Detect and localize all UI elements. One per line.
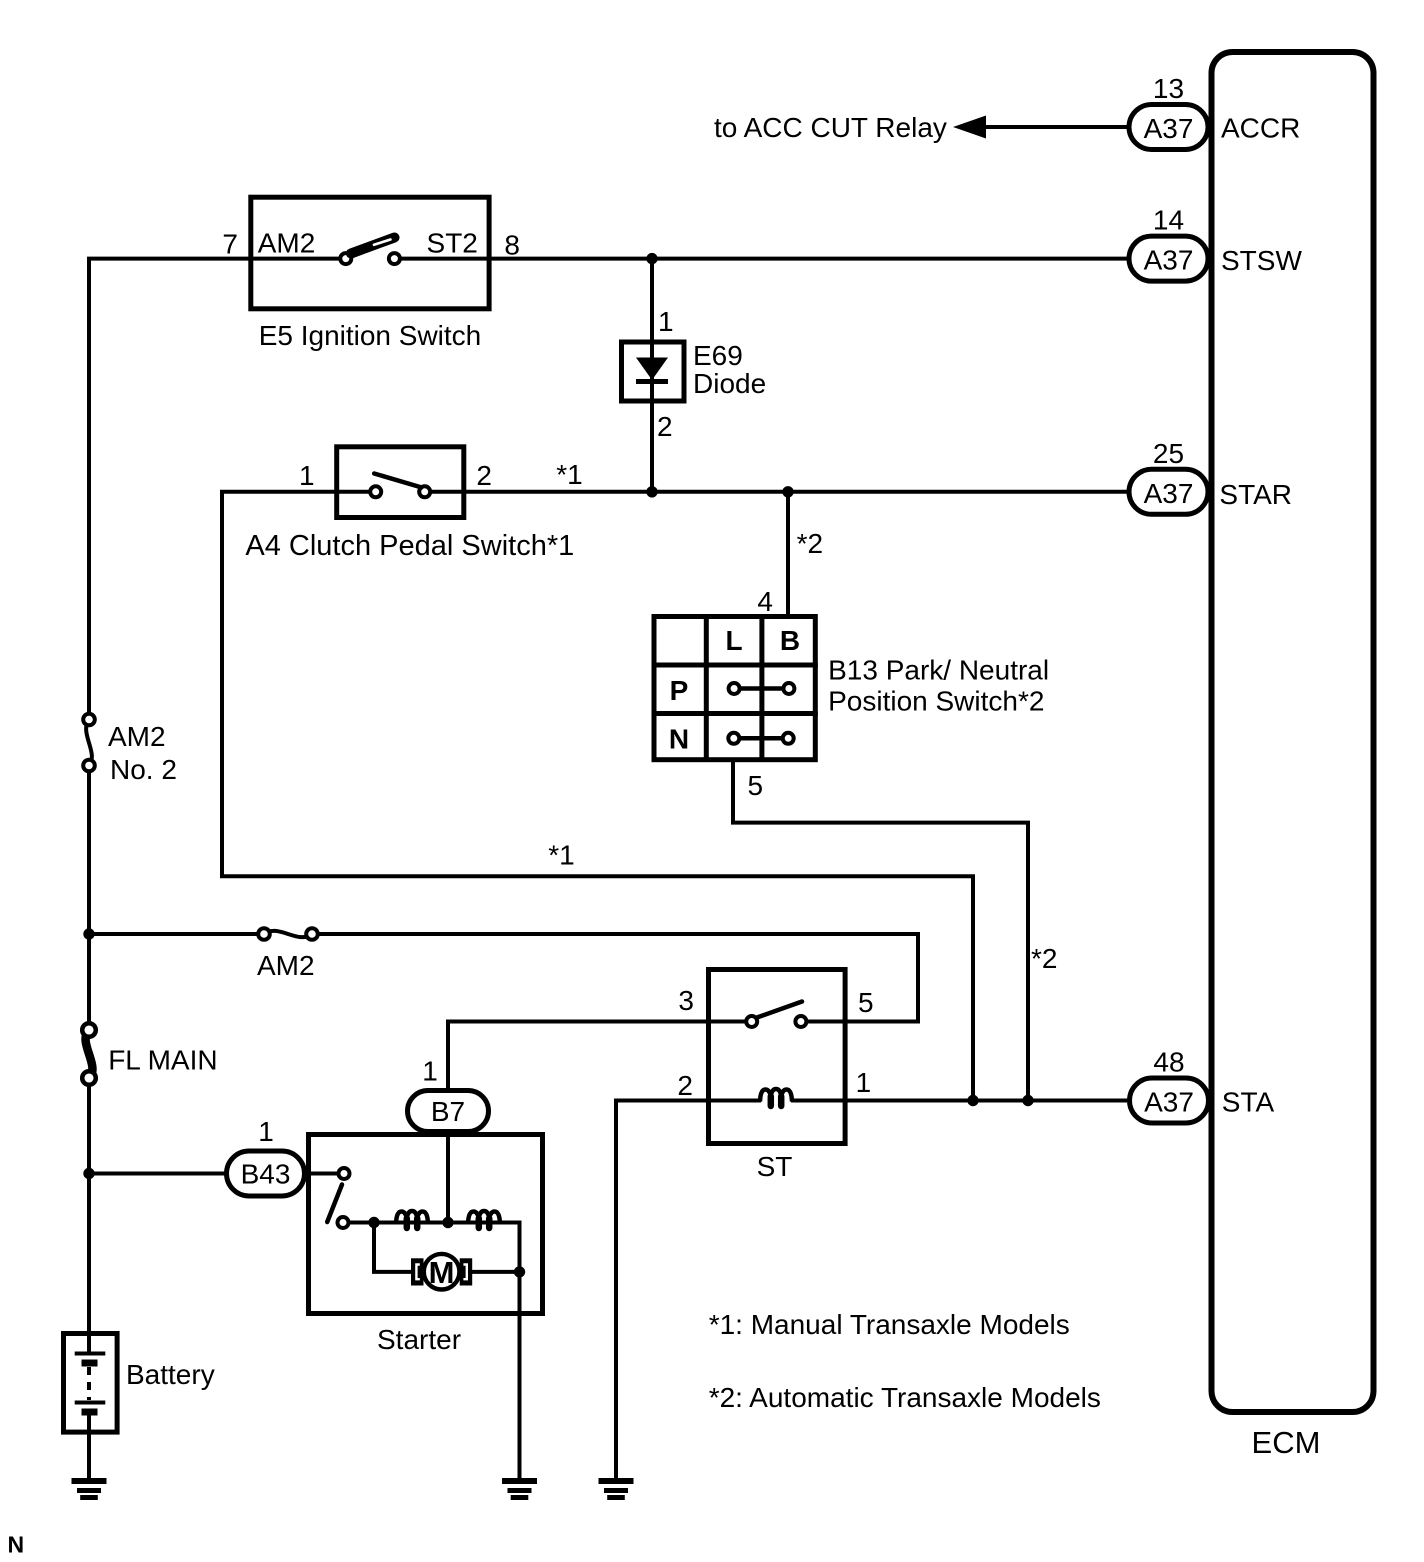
svg-text:13: 13 xyxy=(1153,73,1184,104)
battery box xyxy=(64,1334,118,1433)
wire AM2 to ST pin 5 xyxy=(318,934,919,1022)
svg-text:Battery: Battery xyxy=(126,1359,215,1390)
junction STAR wire / B13 branch xyxy=(782,486,793,497)
svg-text:Position Switch*2: Position Switch*2 xyxy=(828,686,1044,717)
svg-text:1: 1 xyxy=(299,460,315,491)
svg-text:Diode: Diode xyxy=(693,368,766,399)
svg-text:A37: A37 xyxy=(1144,478,1194,509)
wire ST pin 3 to B7 xyxy=(448,1022,746,1091)
starter switch lever xyxy=(327,1185,342,1223)
starter relay ST box xyxy=(709,970,846,1144)
svg-text:7: 7 xyxy=(222,229,238,260)
connector A37 pin 25 STAR xyxy=(1129,438,1208,515)
svg-text:P: P xyxy=(670,675,689,706)
ECM box xyxy=(1212,52,1374,1412)
connector A37 pin 13 ACCR xyxy=(1129,73,1208,150)
wire battery rail to AM2 fuse xyxy=(89,932,259,936)
svg-text:FL MAIN: FL MAIN xyxy=(108,1045,217,1076)
svg-text:A37: A37 xyxy=(1144,113,1194,144)
wire ST pin 1 to STA xyxy=(791,1099,1127,1103)
svg-text:14: 14 xyxy=(1153,205,1184,236)
svg-text:STSW: STSW xyxy=(1221,245,1302,276)
connector B43 xyxy=(227,1116,305,1196)
connector A37 pin 48 STA xyxy=(1130,1047,1209,1124)
junction B7 / coils xyxy=(442,1217,453,1228)
ground battery xyxy=(72,1481,107,1498)
B13 N row contact xyxy=(740,736,783,741)
E5 contact left xyxy=(340,253,351,264)
wire AM2 feed from E5 to left rail xyxy=(89,259,340,714)
svg-text:*1: *1 xyxy=(556,459,582,490)
wire switch to coil 1 xyxy=(349,1221,398,1225)
arrow to ACC CUT Relay xyxy=(953,116,986,139)
connector B7 xyxy=(408,1056,489,1132)
A4 contact right xyxy=(419,486,430,497)
wire B7 into starter coils xyxy=(446,1134,450,1223)
svg-text:E5 Ignition Switch: E5 Ignition Switch xyxy=(259,320,482,351)
junction diode / STAR wire xyxy=(646,486,657,497)
svg-text:N: N xyxy=(669,724,689,755)
starter box xyxy=(309,1135,543,1314)
clutch pedal switch A4 box xyxy=(337,447,464,518)
wire *1 manual transaxle path xyxy=(222,492,973,1101)
ground starter xyxy=(502,1481,537,1498)
svg-text:*2: Automatic Transaxle Models: *2: Automatic Transaxle Models xyxy=(709,1382,1101,1413)
svg-text:Starter: Starter xyxy=(377,1324,461,1355)
svg-text:AM2: AM2 xyxy=(108,721,166,752)
starter motor M xyxy=(411,1254,472,1290)
svg-text:A37: A37 xyxy=(1144,1087,1194,1118)
svg-text:ECM: ECM xyxy=(1252,1425,1321,1460)
wire coil 2 to ground xyxy=(468,1223,520,1479)
fuse AM2 No. 2 xyxy=(83,714,95,772)
svg-text:1: 1 xyxy=(856,1067,872,1098)
park/neutral position switch B13 grid xyxy=(652,614,818,762)
connector A37 pin 14 STSW xyxy=(1129,205,1208,282)
svg-text:N: N xyxy=(8,1532,25,1558)
E5 contact right xyxy=(389,253,400,264)
wire battery to ground xyxy=(87,1412,91,1478)
E5 switch lever xyxy=(351,238,395,254)
svg-text:ST: ST xyxy=(757,1151,793,1182)
svg-text:No. 2: No. 2 xyxy=(110,754,177,785)
svg-text:25: 25 xyxy=(1153,438,1184,469)
svg-text:AM2: AM2 xyxy=(258,228,316,259)
svg-text:*2: *2 xyxy=(1031,943,1057,974)
wire clutch pin2 to STAR xyxy=(430,490,1127,494)
junction motor / ground wire xyxy=(514,1266,525,1277)
svg-text:B13 Park/ Neutral: B13 Park/ Neutral xyxy=(828,654,1049,685)
svg-text:1: 1 xyxy=(422,1056,438,1087)
wire ST pin 2 to ground xyxy=(616,1101,761,1479)
wire battery rail to B43 xyxy=(89,1172,226,1176)
svg-text:5: 5 xyxy=(858,987,874,1018)
svg-text:AM2: AM2 xyxy=(257,950,315,981)
diode symbol xyxy=(636,358,668,381)
svg-text:2: 2 xyxy=(657,411,673,442)
B13 P row contact xyxy=(740,686,783,691)
wire left rail lower xyxy=(87,1084,91,1354)
battery cells xyxy=(75,1354,106,1413)
junction STSW wire / diode xyxy=(646,253,657,264)
junction field/armature branch xyxy=(368,1217,379,1228)
starter contact bottom xyxy=(338,1217,349,1228)
svg-text:E69: E69 xyxy=(693,340,743,371)
wire motor to junction xyxy=(470,1270,520,1274)
svg-text:ST2: ST2 xyxy=(427,227,478,258)
svg-text:to ACC CUT Relay: to ACC CUT Relay xyxy=(714,112,947,143)
ground ST coil xyxy=(599,1481,634,1498)
wire armature branch xyxy=(374,1223,413,1272)
svg-text:48: 48 xyxy=(1153,1047,1184,1078)
wire *2 automatic transaxle path xyxy=(733,762,1028,1101)
diode E69 box xyxy=(622,342,685,401)
svg-text:8: 8 xyxy=(504,229,520,260)
svg-text:1: 1 xyxy=(658,306,674,337)
wire left rail middle xyxy=(87,771,91,1024)
ignition switch E5 box xyxy=(251,197,489,309)
svg-text:B43: B43 xyxy=(241,1159,291,1190)
junction left rail / B43 wire xyxy=(83,1168,94,1179)
A4 switch lever xyxy=(374,474,421,488)
svg-text:1: 1 xyxy=(258,1116,274,1147)
starter field coil 2 xyxy=(468,1211,500,1228)
svg-text:L: L xyxy=(725,625,742,656)
wire ACCR to arrow xyxy=(984,125,1127,129)
svg-text:*1: Manual Transaxle Models: *1: Manual Transaxle Models xyxy=(709,1309,1070,1340)
junction *1 / STA wire xyxy=(967,1095,978,1106)
svg-text:2: 2 xyxy=(677,1070,693,1101)
wire diode branch xyxy=(650,259,654,492)
svg-text:3: 3 xyxy=(678,985,694,1016)
wire ST2 to STSW xyxy=(400,257,1127,261)
wire through coil 1 xyxy=(397,1221,468,1225)
svg-text:*1: *1 xyxy=(548,840,574,871)
svg-text:A4 Clutch Pedal Switch*1: A4 Clutch Pedal Switch*1 xyxy=(245,530,574,562)
ST contact right xyxy=(795,1016,806,1027)
ST switch lever xyxy=(757,1002,802,1018)
wire B43 to starter switch xyxy=(305,1172,339,1176)
svg-text:STA: STA xyxy=(1222,1087,1275,1118)
svg-text:M: M xyxy=(429,1255,455,1290)
junction left rail / AM2 wire xyxy=(83,928,94,939)
A4 contact left xyxy=(370,486,381,497)
fusible link FL MAIN xyxy=(82,1023,96,1085)
starter field coil 1 xyxy=(396,1211,428,1228)
fuse AM2 xyxy=(258,928,318,940)
ST contact left xyxy=(746,1016,757,1027)
svg-text:B: B xyxy=(780,625,800,656)
ST relay coil xyxy=(760,1089,792,1106)
svg-text:5: 5 xyxy=(748,770,764,801)
svg-text:4: 4 xyxy=(757,586,773,617)
svg-text:2: 2 xyxy=(476,460,492,491)
wire *2 branch down to B13 xyxy=(786,492,790,614)
svg-text:B7: B7 xyxy=(431,1096,465,1127)
svg-text:*2: *2 xyxy=(797,528,823,559)
starter contact top xyxy=(339,1168,350,1179)
junction *2 / STA wire xyxy=(1022,1095,1033,1106)
svg-text:STAR: STAR xyxy=(1219,479,1292,510)
svg-text:A37: A37 xyxy=(1144,245,1194,276)
svg-text:ACCR: ACCR xyxy=(1221,113,1300,144)
